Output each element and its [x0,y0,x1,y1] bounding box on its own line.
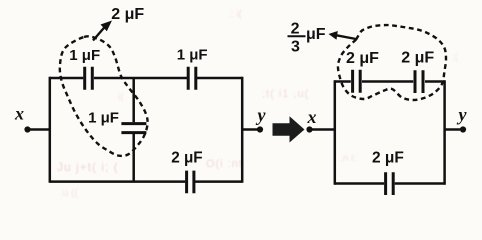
svg-text:2: 2 [291,21,300,38]
svg-text:;t( i1 ,u(: ;t( i1 ,u( [262,88,309,100]
svg-text:y: y [256,105,267,125]
svg-text:,n i;: ,n i; [340,153,356,164]
svg-text:2 μF: 2 μF [372,149,404,166]
svg-text:2 μF: 2 μF [111,6,144,23]
svg-text:Ju j+t( i; (: Ju j+t( i; ( [57,160,119,174]
svg-text:.; i(: .; i( [228,9,243,20]
svg-text:.u ((: .u (( [60,188,78,199]
svg-text:x: x [307,107,317,127]
svg-text:2 μF: 2 μF [346,50,379,67]
svg-text:i(: i( [118,92,124,103]
svg-text:1 μF: 1 μF [69,47,100,64]
svg-text:x: x [14,104,24,124]
svg-text:O(i :nt: O(i :nt [206,158,243,170]
svg-text:1 μF: 1 μF [88,109,119,126]
svg-text:μF: μF [306,26,326,43]
svg-text:y: y [457,105,468,125]
svg-text:;(: ;( [452,52,459,63]
svg-text:2 μF: 2 μF [171,150,202,167]
svg-text:1 μF: 1 μF [177,47,208,64]
svg-text:2 μF: 2 μF [401,50,434,67]
svg-text:3: 3 [291,39,300,56]
